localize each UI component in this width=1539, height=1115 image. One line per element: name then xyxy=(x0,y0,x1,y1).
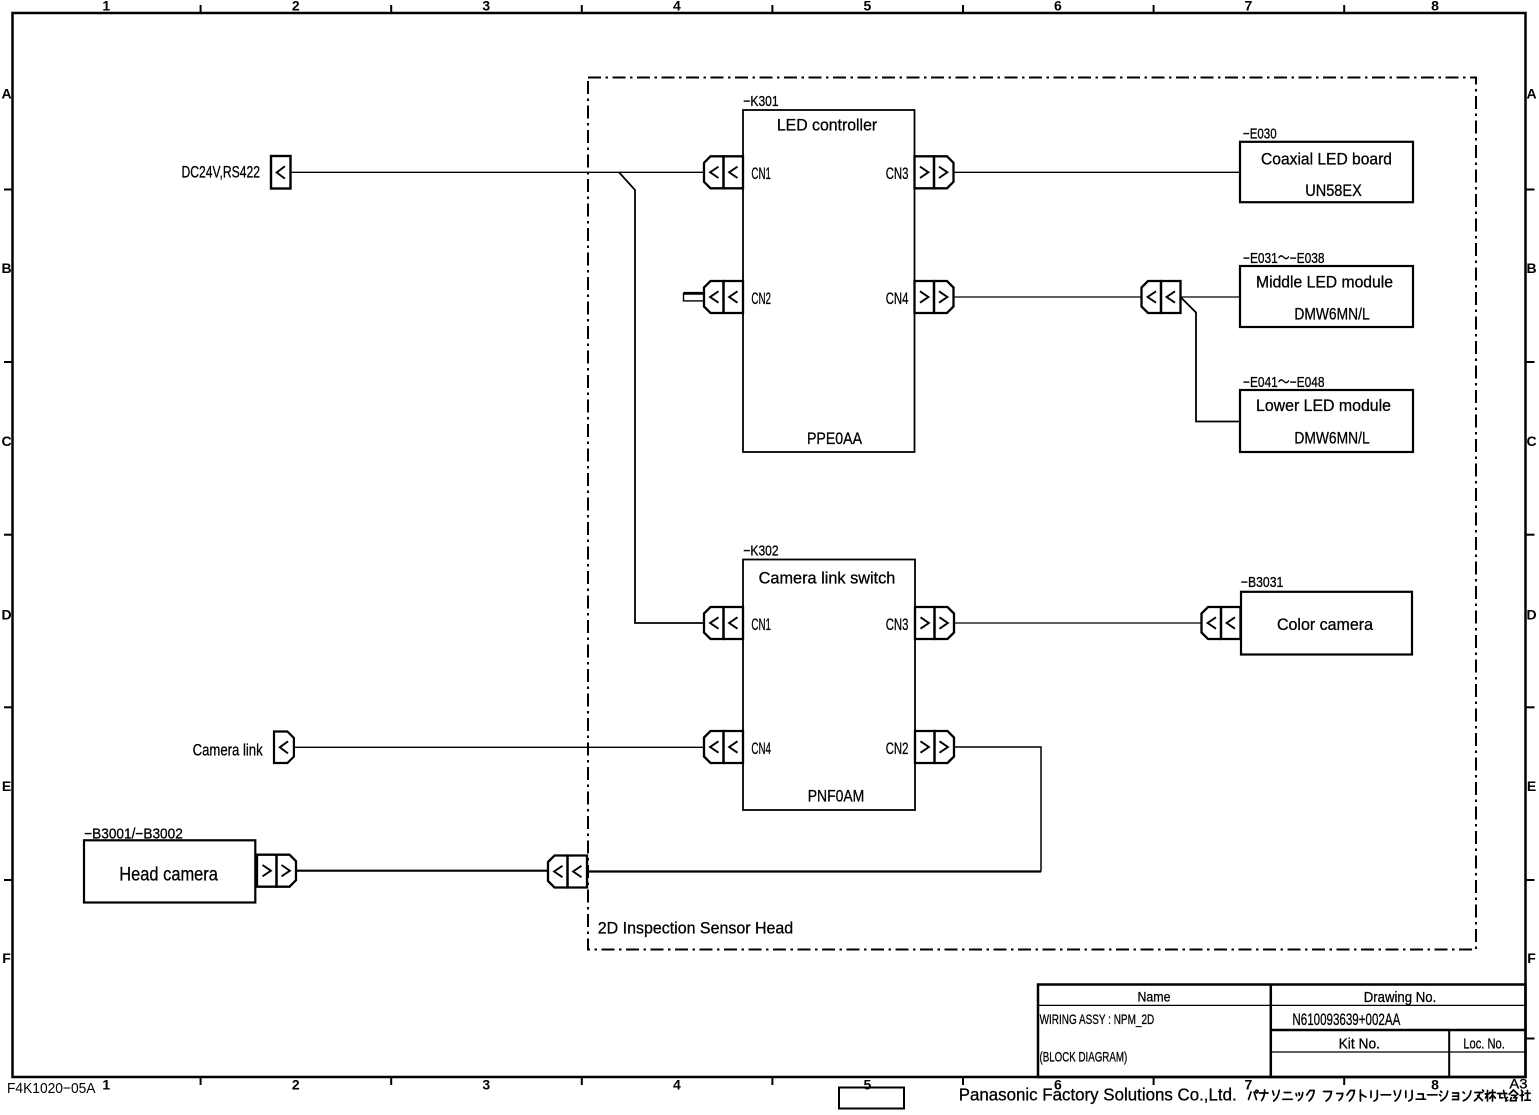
connector mid-cable to LED modules (double plug) xyxy=(1142,281,1181,313)
connector at boundary for head camera cable (double plug) xyxy=(548,856,587,888)
title block divider Kit|Loc xyxy=(1448,1030,1450,1077)
row letters left xyxy=(1,85,11,966)
connector at Color camera (double plug) xyxy=(1202,607,1241,639)
connector K302-CN3 (double plug) xyxy=(915,607,954,639)
svg-text:Kit No.: Kit No. xyxy=(1339,1036,1380,1053)
svg-text:E: E xyxy=(1527,778,1536,794)
connector Camera link (single plug) xyxy=(274,732,294,764)
svg-text:CN2: CN2 xyxy=(886,739,909,758)
connector K302-CN2 (double plug) xyxy=(915,731,954,763)
svg-text:Camera link switch: Camera link switch xyxy=(759,569,896,587)
title block header underline xyxy=(1038,1004,1526,1006)
svg-text:Coaxial LED board: Coaxial LED board xyxy=(1261,150,1392,168)
revision box (empty) xyxy=(839,1088,904,1109)
wire Camera link to K302 CN4 xyxy=(294,746,704,748)
svg-text:CN4: CN4 xyxy=(751,739,771,758)
connector K301-CN2 stub plug xyxy=(684,292,705,295)
svg-text:A3: A3 xyxy=(1509,1075,1527,1091)
svg-text:Panasonic Factory Solutions: Panasonic Factory Solutions Co.,Ltd. xyxy=(959,1084,1237,1104)
svg-text:CN4: CN4 xyxy=(886,289,909,308)
wire head camera cable (thick) xyxy=(296,870,548,872)
svg-text:F: F xyxy=(1527,950,1536,966)
connector K301-CN4 (double plug) xyxy=(915,281,954,313)
svg-text:A: A xyxy=(1526,85,1536,101)
svg-text:7: 7 xyxy=(1245,1077,1253,1093)
svg-text:Head camera: Head camera xyxy=(119,864,218,885)
svg-text:2: 2 xyxy=(292,0,300,14)
block: Coaxial LED board E030 box xyxy=(1240,142,1413,202)
svg-text:4: 4 xyxy=(673,1077,681,1093)
wire K301 CN4 to mid-cable connector xyxy=(954,296,1142,298)
title block divider Name|Drawing xyxy=(1270,985,1273,1078)
svg-text:−B3001/−B3002: −B3001/−B3002 xyxy=(84,826,183,842)
connector K301-CN1 (double plug) xyxy=(704,156,743,188)
svg-text:Loc. No.: Loc. No. xyxy=(1463,1036,1505,1053)
column numbers bottom xyxy=(102,1077,1439,1093)
svg-text:C: C xyxy=(1526,433,1536,449)
svg-text:8: 8 xyxy=(1431,1077,1439,1093)
block U: LED controller K301 box xyxy=(743,110,915,452)
title block line above Kit No. xyxy=(1271,1029,1526,1032)
svg-text:PPE0AA: PPE0AA xyxy=(807,429,863,448)
svg-text:LED controller: LED controller xyxy=(777,116,878,134)
connector K301-CN3 (double plug) xyxy=(915,156,954,188)
svg-text:8: 8 xyxy=(1431,0,1439,14)
connector K302-CN1 (double plug) xyxy=(704,607,743,639)
connector K302-CN4 (double plug) xyxy=(704,731,743,763)
column numbers top xyxy=(102,0,1439,14)
svg-text:5: 5 xyxy=(864,1077,872,1093)
svg-text:2D Inspection Sensor Head: 2D Inspection Sensor Head xyxy=(598,919,793,938)
svg-text:1: 1 xyxy=(102,1077,110,1093)
connector DC24V (single plug) xyxy=(271,156,291,189)
svg-text:A: A xyxy=(1,85,11,101)
svg-text:N610093639+002AA: N610093639+002AA xyxy=(1292,1010,1400,1029)
wire K302 CN3 to Color camera xyxy=(954,622,1202,624)
block: Middle LED module E031-E038 box xyxy=(1240,266,1413,327)
title block outline xyxy=(1038,985,1526,1078)
svg-text:WIRING ASSY : NPM_2D: WIRING ASSY : NPM_2D xyxy=(1040,1011,1155,1027)
wire K301 CN3 to Coaxial LED board xyxy=(954,171,1241,173)
svg-text:F4K1020−05A: F4K1020−05A xyxy=(7,1080,96,1097)
svg-text:Lower LED module: Lower LED module xyxy=(1256,397,1391,415)
svg-text:DMW6MN/L: DMW6MN/L xyxy=(1294,305,1369,324)
svg-text:3: 3 xyxy=(482,0,490,14)
svg-text:−E041～−E048: −E041～−E048 xyxy=(1243,375,1325,391)
connector at Head camera output (double plug) xyxy=(257,855,296,887)
svg-text:PNF0AM: PNF0AM xyxy=(808,786,865,805)
wire mid-cable connector to Middle LED module xyxy=(1181,296,1241,298)
svg-text:F: F xyxy=(2,950,11,966)
svg-text:E: E xyxy=(2,778,11,794)
svg-text:−E031～−E038: −E031～−E038 xyxy=(1243,251,1325,267)
svg-text:−E030: −E030 xyxy=(1243,126,1277,142)
block: Lower LED module E041-E048 box xyxy=(1240,390,1413,452)
svg-text:CN3: CN3 xyxy=(886,615,909,634)
wire branch from DC24V line down to K302 CN1 xyxy=(619,172,704,623)
wire branch down to Lower LED module xyxy=(1181,297,1241,422)
column tick marks bottom xyxy=(201,1077,1345,1085)
svg-text:Color camera: Color camera xyxy=(1277,616,1374,634)
svg-text:CN3: CN3 xyxy=(886,164,909,183)
svg-text:Middle LED module: Middle LED module xyxy=(1256,274,1393,292)
block: Camera link switch K302 box xyxy=(743,560,915,811)
svg-text:CN1: CN1 xyxy=(751,615,771,634)
block: Head camera B3001/B3002 box xyxy=(84,840,255,902)
2D Inspection Sensor Head boundary (dash-dot) xyxy=(588,78,1476,950)
row tick marks left xyxy=(4,190,12,881)
svg-text:UN58EX: UN58EX xyxy=(1305,181,1362,200)
svg-text:DMW6MN/L: DMW6MN/L xyxy=(1294,429,1369,448)
svg-text:−K302: −K302 xyxy=(743,543,778,559)
svg-text:Camera link: Camera link xyxy=(193,740,263,759)
svg-text:DC24V,RS422: DC24V,RS422 xyxy=(182,163,261,182)
svg-text:B: B xyxy=(1,260,11,276)
svg-text:CN2: CN2 xyxy=(751,289,771,308)
svg-text:D: D xyxy=(1526,607,1536,623)
svg-text:Drawing No.: Drawing No. xyxy=(1364,990,1437,1006)
svg-text:−B3031: −B3031 xyxy=(1241,575,1283,591)
svg-text:−K301: −K301 xyxy=(743,94,778,110)
svg-text:1: 1 xyxy=(102,0,110,14)
column tick marks top xyxy=(201,5,1345,13)
title block line under Kit No. header xyxy=(1271,1051,1526,1053)
svg-text:D: D xyxy=(1,607,11,623)
svg-text:(BLOCK DIAGRAM): (BLOCK DIAGRAM) xyxy=(1040,1049,1128,1065)
company name (Japanese katakana/kanji, drawn): panasonic factory solutions kabushikigaisha xyxy=(1249,1090,1531,1101)
svg-text:C: C xyxy=(1,433,11,449)
connector K301-CN2 (double plug) xyxy=(704,281,743,313)
wire K302 CN2 right then down xyxy=(954,747,1041,872)
block: Color camera B3031 box xyxy=(1241,592,1412,655)
svg-text:B: B xyxy=(1526,260,1536,276)
svg-text:3: 3 xyxy=(482,1077,490,1093)
svg-text:4: 4 xyxy=(673,0,681,14)
row tick marks right xyxy=(1526,190,1535,1039)
svg-text:5: 5 xyxy=(864,0,872,14)
svg-text:Name: Name xyxy=(1138,988,1171,1004)
wire DC24V to K301 CN1 xyxy=(291,171,705,173)
svg-text:2: 2 xyxy=(292,1077,300,1093)
svg-text:CN1: CN1 xyxy=(751,164,771,183)
svg-text:7: 7 xyxy=(1245,0,1253,14)
wire boundary connector to CN2 riser xyxy=(587,870,1041,872)
row letters right xyxy=(1526,85,1536,966)
svg-text:6: 6 xyxy=(1054,0,1062,14)
